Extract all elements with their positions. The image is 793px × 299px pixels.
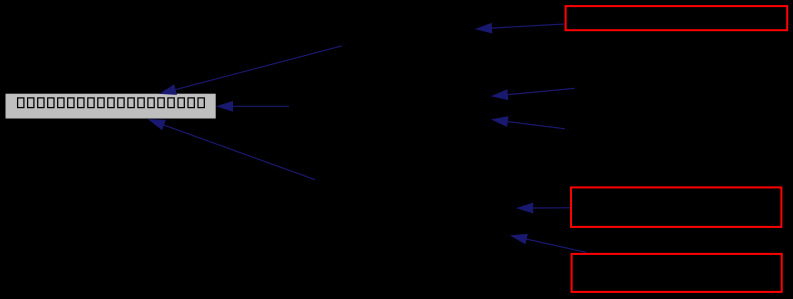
node N4 (red truncated node, bottom right)	[572, 254, 782, 292]
node N1 label (19 missing-glyph tofu boxes)	[18, 98, 205, 108]
edge E5 (hidden caller -> hidden node B lower)	[492, 117, 565, 129]
node N3 (red truncated node, middle right)	[571, 187, 781, 227]
edge E6 (hidden caller -> N1 bottom)	[149, 120, 315, 180]
edge E1 (hidden caller -> N1 top)	[161, 46, 342, 95]
node N1 (central grey node)	[6, 94, 216, 119]
edge E8 (N4 -> hidden node D)	[512, 234, 587, 252]
edge E3 (hidden node -> N1 right)	[218, 102, 290, 112]
edge E4 (hidden caller -> hidden node B upper)	[492, 88, 574, 99]
edge E2 (N2 -> hidden node A)	[477, 23, 565, 33]
edge E7 (N3 -> hidden node D)	[518, 203, 570, 213]
node N2 (red truncated node, top right)	[566, 6, 788, 30]
